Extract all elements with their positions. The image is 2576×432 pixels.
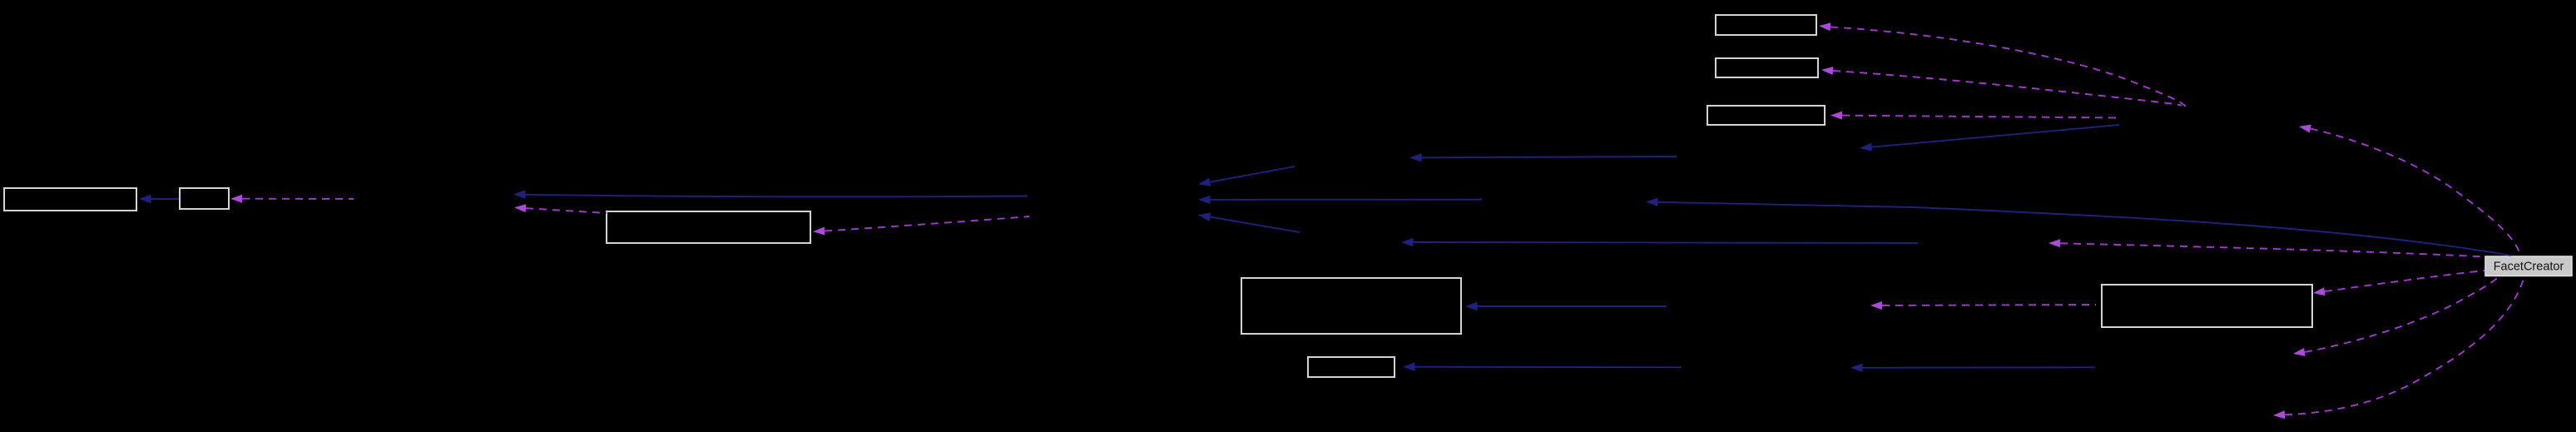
node box F (1707, 106, 1825, 125)
blue solid edges (139, 125, 2511, 372)
dashed curve FacetCreator up-left (2311, 129, 2520, 256)
dashed curve into D (1830, 27, 2186, 107)
dashed curve FacetCreator down to y425 (2305, 276, 2499, 352)
blue cluster edge upper diagonal (1210, 166, 1295, 182)
blue edge B to A (151, 198, 180, 200)
node box G (1241, 278, 1461, 334)
blue long edge to far-left invisible node (526, 195, 1028, 197)
node box C (607, 211, 810, 243)
blue edge at y188 (1422, 156, 1677, 157)
dashed edge into C right (825, 216, 1029, 231)
svg-text:FacetCreator: FacetCreator (2494, 261, 2564, 274)
blue cluster edge lower diagonal (1210, 217, 1300, 232)
node box E (1716, 58, 1818, 77)
node box D (1716, 15, 1816, 35)
node box H (1308, 357, 1395, 377)
blue diagonal edge upper right (1871, 125, 2119, 147)
blue cluster edge middle horizontal (1211, 199, 1483, 201)
node box B (180, 188, 229, 209)
node box J (2102, 285, 2312, 327)
dashed long edge FacetCreator to y292 (2060, 243, 2485, 256)
blue edge into H (1415, 366, 1682, 369)
blue long curve from FacetCreator top (1658, 202, 2512, 256)
node FacetCreator (2485, 256, 2572, 276)
dashed edge from C to left (526, 208, 607, 213)
blue edge into G (1478, 305, 1667, 307)
blue edge at y291 (1414, 242, 1919, 243)
dashed edge J to left y367 (1882, 305, 2096, 305)
blue edge at y441 right (1863, 366, 2096, 369)
dashed edge into B (242, 198, 354, 200)
dashed curve FacetCreator into J (2325, 271, 2484, 291)
node box A (4, 188, 136, 211)
dashed edge into F (1842, 116, 2118, 118)
dashed curve into E (1833, 71, 2182, 106)
dashed curve FacetCreator down to y499 (2285, 276, 2524, 415)
